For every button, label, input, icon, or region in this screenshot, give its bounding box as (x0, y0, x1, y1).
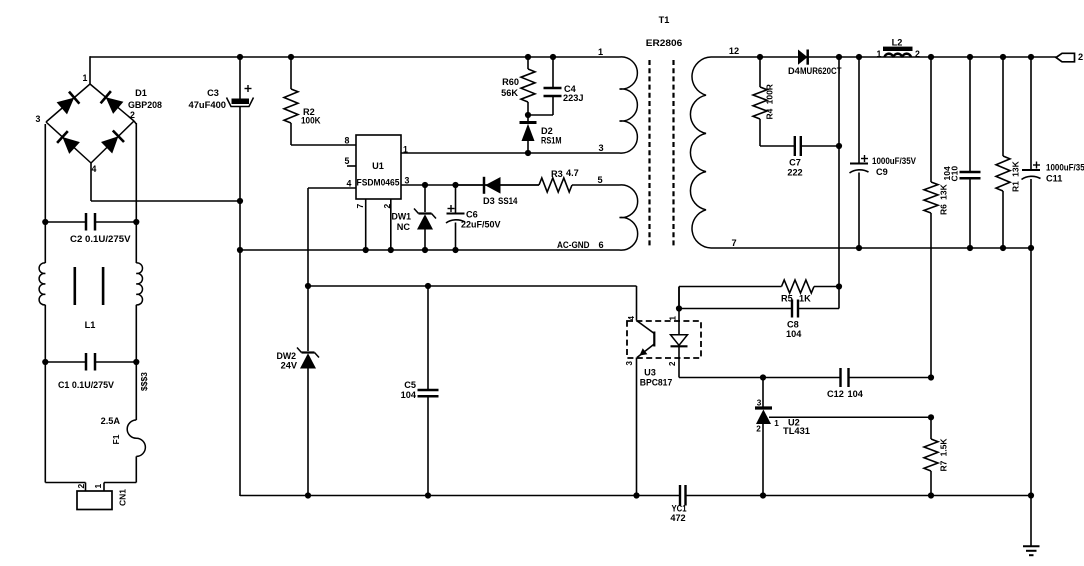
U1 pin 2 (390, 199, 392, 250)
opto transistor collector pin 4 (636, 286, 638, 321)
svg-text:3: 3 (598, 143, 603, 153)
svg-text:2.5A: 2.5A (101, 416, 121, 426)
wire C3 bottom to primary gnd (239, 201, 241, 250)
wire bottom rail primary side (240, 495, 680, 497)
svg-text:47uF400: 47uF400 (189, 100, 227, 110)
node junction R1 bottom (1000, 245, 1006, 251)
svg-text:U1: U1 (372, 161, 384, 171)
wire top rail primary (90, 56, 620, 58)
U1 pin 4 (308, 187, 356, 189)
inductor L1 core (74, 267, 77, 305)
svg-text:1K: 1K (799, 294, 811, 304)
node junction U1 pin2 gnd (388, 247, 394, 253)
node junction C5 bottom (425, 492, 431, 498)
svg-text:104: 104 (401, 390, 417, 400)
svg-text:RS1M: RS1M (541, 136, 562, 146)
node junction R4 top (757, 54, 763, 60)
svg-text:NC: NC (397, 222, 411, 232)
resistor R60 56K (527, 57, 529, 69)
U1 pin 5 (347, 165, 356, 167)
svg-text:56K: 56K (501, 88, 518, 98)
svg-text:6: 6 (598, 240, 603, 250)
wire D4 cathode down to feedback (838, 57, 840, 287)
svg-text:4: 4 (627, 316, 636, 321)
diode D4 MUR620CT (798, 50, 808, 65)
resistor R1 13K (1002, 57, 1004, 156)
resistor R5 1K (782, 280, 815, 293)
capacitor YC1 472 (679, 485, 681, 506)
transformer T1 aux winding pins 5-6 (620, 185, 638, 250)
node junction R60/C4 bottom (525, 112, 531, 118)
svg-text:1000uF/35V: 1000uF/35V (1046, 163, 1084, 173)
node junction U1 pin7 gnd (363, 247, 369, 253)
node junction DW2 bottom (305, 492, 311, 498)
output connector pin 2 (1056, 53, 1075, 62)
svg-text:4: 4 (92, 164, 97, 174)
wire secondary gnd rail (711, 247, 1031, 249)
svg-text:R7 1.5K: R7 1.5K (939, 438, 949, 472)
node junction TL431 cathode (760, 374, 766, 380)
svg-text:1: 1 (669, 316, 678, 321)
node junction C6 bottom (452, 247, 458, 253)
resistor R3 4.7 (539, 178, 572, 192)
node junction C6 top (452, 182, 458, 188)
wire bottom rail secondary side (687, 495, 1032, 497)
svg-text:D3: D3 (483, 196, 495, 206)
wire U1 pin4 riser (307, 188, 309, 286)
svg-text:C6: C6 (466, 210, 478, 220)
resistor R4 100R (759, 57, 761, 87)
fuse F1 2.5A (135, 362, 137, 420)
svg-text:472: 472 (670, 513, 685, 523)
node junction D2 anode (525, 150, 531, 156)
svg-text:C2 0.1U/275V: C2 0.1U/275V (70, 234, 131, 244)
node junction C2 left (42, 219, 48, 225)
svg-text:L2: L2 (892, 38, 903, 48)
svg-text:GBP208: GBP208 (128, 100, 162, 110)
node junction C5 top (425, 283, 431, 289)
svg-text:R60: R60 (502, 77, 519, 87)
capacitor C8 104 (679, 308, 791, 310)
capacitor C5 104 (427, 286, 429, 389)
svg-text:1000uF/35V: 1000uF/35V (872, 156, 917, 166)
svg-text:AC-GND: AC-GND (557, 240, 590, 250)
svg-text:22uF/50V: 22uF/50V (461, 220, 501, 230)
svg-text:D4: D4 (788, 66, 801, 76)
diode D2 RS1M (527, 115, 529, 122)
capacitor C10 104 (969, 57, 971, 171)
svg-text:2: 2 (915, 49, 920, 59)
svg-text:C7: C7 (789, 158, 801, 168)
opto transistor emitter pin 3 (637, 344, 654, 358)
node junction C1 right (133, 359, 139, 365)
wire LED anode rail to R5 (678, 287, 680, 309)
node junction opto emitter bottom (633, 492, 639, 498)
node junction R60 top (525, 54, 531, 60)
svg-text:3: 3 (36, 114, 41, 124)
svg-text:2: 2 (130, 110, 135, 120)
node junction TL431 ref / divider (928, 414, 934, 420)
node junction C12 right (928, 374, 934, 380)
svg-text:C8: C8 (787, 320, 799, 330)
wire primary gnd down to bottom rail (239, 250, 241, 496)
svg-text:7: 7 (731, 238, 736, 248)
svg-text:2: 2 (76, 484, 86, 489)
svg-text:1: 1 (774, 419, 779, 428)
svg-text:CN1: CN1 (118, 489, 128, 506)
svg-text:1: 1 (93, 484, 103, 489)
node junction C11 top (1028, 54, 1034, 60)
node junction C9 bottom (856, 245, 862, 251)
opto transistor base bar (653, 332, 655, 347)
svg-text:7: 7 (355, 204, 365, 209)
svg-text:C1 0.1U/275V: C1 0.1U/275V (58, 380, 115, 390)
node junction C3 top (237, 54, 243, 60)
svg-text:R4 100R: R4 100R (765, 84, 775, 119)
resistor R6 13K (930, 57, 932, 182)
svg-text:3: 3 (757, 399, 762, 408)
svg-text:4: 4 (347, 179, 352, 189)
transformer T1 primary winding pins 1-3 (620, 57, 638, 153)
wire bridge pin3 down (44, 124, 46, 222)
node junction gnd corner (1028, 492, 1034, 498)
resistor R2 100K (290, 57, 292, 89)
inductor L1 right winding (135, 222, 137, 263)
capacitor C6 22uF/50V (455, 185, 457, 213)
node junction TL431 anode bottom (760, 492, 766, 498)
capacitor C11 1000uF/35V (1030, 57, 1032, 170)
wire top rail secondary (711, 56, 1056, 58)
svg-text:1: 1 (877, 49, 882, 59)
node junction C9 top (856, 54, 862, 60)
svg-text:104: 104 (786, 329, 802, 339)
svg-text:5: 5 (345, 156, 350, 166)
opto LED diode (671, 335, 688, 346)
svg-text:24V: 24V (281, 361, 298, 371)
svg-text:DW1: DW1 (392, 212, 412, 222)
wire bridge pin4 to gnd line (90, 163, 92, 201)
wire LED cathode to TL431 (679, 377, 841, 379)
wire U1 pin3 Vcc (401, 184, 539, 186)
node junction LED anode / C8 (676, 305, 682, 311)
svg-text:YC1: YC1 (672, 504, 687, 514)
capacitor C9 1000uF/35V (858, 57, 860, 163)
svg-text:FSDM0465: FSDM0465 (357, 178, 400, 188)
svg-text:ER2806: ER2806 (646, 38, 683, 48)
wire R2 to U1 pin8 (291, 144, 356, 146)
svg-text:D2: D2 (541, 126, 553, 136)
svg-text:100K: 100K (301, 116, 321, 126)
wire DW2 rail (308, 285, 637, 287)
node junction C10 bottom (967, 245, 973, 251)
svg-text:C11: C11 (1046, 174, 1062, 184)
svg-text:2: 2 (756, 424, 761, 433)
node junction C7 snubber (836, 143, 842, 149)
node junction primary gnd left (237, 247, 243, 253)
wire bridge pin2 down (134, 121, 136, 124)
resistor R7 1.5K (930, 417, 932, 439)
svg-text:R6 13K: R6 13K (939, 183, 949, 215)
svg-text:C12: C12 (827, 389, 844, 399)
op-amp U1 FSDM0465 (356, 135, 401, 199)
svg-text:222: 222 (787, 168, 802, 178)
capacitor C2 0.1U/275V (45, 221, 85, 223)
transformer T1 secondary winding pins 12-7 (690, 57, 711, 248)
wire C1 left down to CN1 (44, 362, 46, 483)
svg-text:U3: U3 (644, 368, 656, 378)
svg-text:R1 13K: R1 13K (1011, 160, 1021, 192)
svg-text:SS14: SS14 (498, 196, 518, 206)
node junction pin4 rail (237, 198, 243, 204)
bridge rectifier D1 GBP208 (46, 84, 134, 163)
diode D3 SS14 (456, 184, 540, 186)
transformer core (648, 60, 650, 248)
connector CN1 (77, 491, 112, 510)
node junction D4 cathode (836, 54, 842, 60)
wire primary gnd rail AC-GND (240, 249, 620, 251)
svg-text:5: 5 (597, 175, 602, 185)
inductor L1 left winding (44, 222, 46, 263)
svg-text:2: 2 (668, 361, 677, 366)
svg-text:8: 8 (345, 136, 350, 146)
svg-text:223J: 223J (563, 93, 583, 103)
svg-text:L1: L1 (85, 320, 96, 330)
capacitor C4 223J (552, 57, 554, 87)
wire fuse to CN1 pin1 (104, 482, 136, 484)
inductor L2 (883, 47, 913, 51)
node junction DW2 top (305, 283, 311, 289)
ground (1030, 496, 1032, 547)
node junction R6 top (928, 54, 934, 60)
node junction DW1 top (422, 182, 428, 188)
svg-text:DW2: DW2 (277, 351, 297, 361)
svg-text:MUR620CT: MUR620CT (800, 66, 842, 76)
capacitor C7 222 (760, 145, 794, 147)
node junction R5/C8 right (836, 283, 842, 289)
node junction C11 bottom (1028, 245, 1034, 251)
node junction C2 right (133, 219, 139, 225)
svg-text:TL431: TL431 (783, 426, 810, 436)
zener DW1 NC (424, 185, 426, 212)
svg-text:3: 3 (625, 361, 634, 366)
svg-text:F1: F1 (111, 434, 121, 444)
svg-text:3: 3 (405, 176, 410, 186)
svg-text:2: 2 (1078, 52, 1083, 62)
svg-text:C9: C9 (876, 167, 888, 177)
node junction C10 top (967, 54, 973, 60)
svg-text:C5: C5 (404, 380, 416, 390)
svg-text:$$$3: $$$3 (139, 372, 149, 391)
svg-text:2: 2 (382, 204, 392, 209)
wire U1 pin1 to transformer pin3 (401, 152, 620, 154)
capacitor C1 0.1U/275V (45, 361, 85, 363)
opto LED pin 1 (678, 287, 680, 335)
opto U3 BPC817 box (627, 321, 701, 358)
capacitor C12 104 (839, 368, 841, 387)
svg-text:BPC817: BPC817 (640, 378, 673, 388)
node junction C4 top (550, 54, 556, 60)
wire secondary gnd down (1030, 248, 1032, 496)
svg-text:R3: R3 (551, 169, 563, 179)
svg-text:C10: C10 (950, 166, 960, 182)
svg-text:T1: T1 (659, 15, 670, 25)
svg-text:104: 104 (848, 389, 864, 399)
svg-text:C3: C3 (207, 88, 219, 98)
svg-text:1: 1 (598, 47, 603, 57)
U1 pin 7 (365, 199, 367, 250)
node junction C1 left (42, 359, 48, 365)
shunt reg U2 TL431 (762, 378, 764, 407)
svg-text:12: 12 (729, 46, 739, 56)
node junction R2 top (288, 54, 294, 60)
svg-text:1: 1 (83, 73, 88, 83)
node junction R7 bottom (928, 492, 934, 498)
node junction R1 top (1000, 54, 1006, 60)
svg-text:D1: D1 (135, 88, 147, 98)
capacitor C3 47uF400 (239, 57, 241, 99)
node junction DW1 bottom (422, 247, 428, 253)
wire bridge riser (89, 56, 91, 84)
zener DW2 24V (307, 286, 309, 351)
wire R3 to transformer pin5 (572, 184, 620, 186)
svg-text:4.7: 4.7 (566, 168, 579, 178)
